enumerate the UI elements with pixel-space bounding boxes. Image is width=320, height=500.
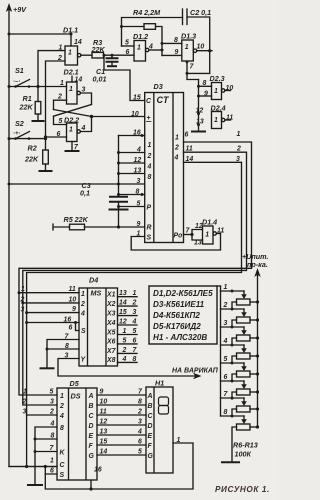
svg-text:2: 2 [137,409,142,416]
svg-text:+: + [147,115,151,122]
svg-text:2: 2 [49,409,54,416]
svg-text:C: C [146,98,152,105]
svg-text:D5: D5 [70,379,80,388]
svg-text:6: 6 [126,49,130,56]
gate D2.1 [67,82,81,104]
svg-text:B: B [89,403,94,410]
wire D3 pin12 [119,162,145,164]
svg-text:7: 7 [190,64,195,71]
svg-text:22K: 22K [19,103,34,112]
svg-text:1: 1 [205,232,209,239]
svg-text:10: 10 [226,85,234,92]
svg-text:R: R [147,225,152,232]
svg-text:13: 13 [194,240,202,247]
svg-text:5: 5 [125,40,129,47]
svg-text:13: 13 [100,429,108,436]
wire clock tap to D3 pin15 [104,55,145,100]
svg-text:5: 5 [59,118,63,125]
svg-text:0,01: 0,01 [93,75,107,84]
svg-text:2: 2 [174,145,179,152]
ground (R2) [39,170,53,172]
parts list box [149,286,217,344]
svg-text:1: 1 [175,135,179,142]
svg-text:S1: S1 [15,66,24,75]
svg-text:DS: DS [71,392,81,401]
svg-text:R2: R2 [28,144,37,153]
svg-text:4: 4 [132,319,137,326]
svg-text:1: 1 [60,80,64,87]
resistor R5 + wire D3 pin9 [53,224,145,230]
net rung 4 [221,338,245,347]
svg-text:H1 - АЛС320В: H1 - АЛС320В [153,333,207,342]
svg-text:1: 1 [50,458,54,465]
capacitor C1 [106,55,119,66]
svg-text:MS: MS [91,289,102,298]
wire D5 pin C from +9V rail [9,465,57,468]
svg-text:6: 6 [185,132,189,139]
svg-text:8: 8 [174,37,178,44]
svg-text:1: 1 [148,142,152,149]
svg-text:D3: D3 [154,82,163,91]
ground (D2 inputs rail) [191,131,206,133]
svg-text:13: 13 [196,119,204,126]
wire D2.2 input 6 [44,135,67,138]
svg-text:D: D [148,423,153,430]
svg-text:9: 9 [72,306,76,313]
net 1 wire (D3 pin6 out) [18,142,252,395]
svg-text:X3: X3 [106,310,116,317]
net rung 2 [221,302,245,311]
svg-text:1: 1 [60,393,64,400]
svg-text:1: 1 [59,45,63,52]
svg-text:2: 2 [122,347,127,354]
net 3 wire (D3 pin14 out) [25,162,241,415]
svg-text:E: E [89,433,94,440]
preset rail (D3 left) [117,136,120,197]
svg-text:3: 3 [50,399,54,406]
svg-text:1: 1 [237,131,241,138]
svg-text:4: 4 [80,311,85,318]
latch cross wires [54,105,92,117]
counter D3 [145,93,184,243]
svg-text:D4: D4 [89,276,98,285]
wire D1.3 pin7 loop [186,61,210,80]
svg-text:3: 3 [138,419,142,426]
wire D4 pin16/6 tie [27,321,79,331]
svg-text:1: 1 [214,88,218,95]
decoder D5 [57,388,97,480]
svg-text:6: 6 [69,325,73,332]
svg-text:X6: X6 [106,339,116,346]
svg-text:3: 3 [21,307,25,314]
svg-text:10: 10 [197,44,205,51]
svg-text:16: 16 [64,317,72,324]
svg-text:8: 8 [138,399,142,406]
D4 output net numbers 1-8 [132,290,138,363]
svg-text:Pо: Pо [174,233,183,240]
svg-text:R4 2,2M: R4 2,2M [133,8,161,17]
svg-text:9: 9 [204,91,208,98]
svg-text:5: 5 [138,449,142,456]
svg-text:G: G [89,453,95,460]
svg-text:D2.4: D2.4 [211,104,226,113]
capacitor C3 [109,197,128,227]
svg-text:1: 1 [185,44,189,51]
svg-text:3: 3 [65,353,69,360]
resistor R4 top loop [120,18,183,56]
wire D2.2 input 5 [54,116,67,124]
svg-text:3: 3 [236,156,240,163]
svg-text:2: 2 [236,146,241,153]
svg-text:S: S [60,472,65,479]
H1 digit 8 glyph [159,397,169,414]
net 2 wire (D3 pin11 out) [21,152,246,405]
svg-text:2: 2 [20,297,25,304]
resistor R3 [81,52,134,58]
svg-text:4: 4 [147,164,152,171]
svg-text:1: 1 [224,284,228,291]
svg-text:·–·: ·–· [13,79,20,85]
D5 output wires to H1 [97,395,146,455]
svg-text:8: 8 [65,343,69,350]
svg-text:11: 11 [100,409,107,416]
svg-text:2: 2 [22,399,27,406]
H1 pin numbers [137,389,143,456]
resistor R1 [35,87,41,121]
svg-text:D1.3: D1.3 [181,32,196,41]
gate D2.2 [67,123,81,142]
svg-text:1: 1 [137,45,141,52]
svg-text:12: 12 [196,108,204,115]
svg-text:5: 5 [133,328,137,335]
svg-text:5: 5 [224,356,228,363]
svg-text:4: 4 [174,155,179,162]
node R3/D1.2 [103,54,106,57]
svg-text:2: 2 [223,302,228,309]
svg-text:4: 4 [148,44,153,51]
gate D1.2 [122,41,163,62]
svg-text:1: 1 [68,50,72,57]
svg-text:1: 1 [81,291,85,298]
svg-text:D1.4: D1.4 [202,218,217,227]
svg-text:K: K [60,450,66,457]
svg-text:8: 8 [133,356,137,363]
D4 output wires X1-X8 [118,297,138,363]
svg-text:S: S [147,235,152,242]
svg-text:D1,D2-К561ЛЕ5: D1,D2-К561ЛЕ5 [153,289,213,298]
svg-text:3: 3 [23,409,27,416]
svg-text:C: C [148,413,154,420]
svg-text:9: 9 [100,389,104,396]
svg-text:F: F [89,443,94,450]
svg-text:4: 4 [81,125,86,132]
svg-text:D1.2: D1.2 [133,32,148,41]
svg-text:1: 1 [21,286,25,293]
gate D2.3 [199,83,231,100]
D5 output pin numbers [100,389,108,456]
svg-text:10: 10 [100,399,108,406]
wire +9V to D1.1 pin14 [9,33,73,47]
svg-text:14: 14 [119,300,127,307]
svg-text:+9V: +9V [13,5,27,14]
svg-text:2: 2 [80,301,85,308]
net rung 5 [221,356,245,365]
svg-text:1: 1 [69,86,73,93]
svg-text:РИСУНОК 1.: РИСУНОК 1. [215,485,270,494]
svg-text:H1: H1 [155,379,164,388]
svg-text:S: S [81,328,86,335]
wire D2.1 input 2 (latch feedback) [54,100,67,109]
svg-text:8: 8 [203,80,207,87]
svg-text:1: 1 [133,290,137,297]
gate D2.4 [212,112,231,129]
resistor R10 [232,363,259,381]
resistor R11 [232,381,259,399]
wire D3 Po to D1.4 inputs [184,230,203,241]
svg-text:C2 0,1: C2 0,1 [190,8,211,17]
svg-text:E: E [148,433,153,440]
wire D3 pin1/S loop to D1.4 output [131,234,220,251]
svg-text:11: 11 [226,115,233,122]
parts list text [153,289,213,342]
wire D5 pin S [45,467,57,475]
svg-text:2: 2 [147,153,152,160]
svg-text:2: 2 [132,300,137,307]
ground (ladder) [221,461,240,463]
svg-text:8: 8 [224,409,228,416]
net 3 tail to D5 C row [25,415,28,468]
svg-text:11: 11 [186,146,193,153]
switch S2 [9,132,47,141]
svg-text:14: 14 [75,77,83,84]
svg-text:16: 16 [94,467,102,474]
svg-text:11: 11 [69,286,76,293]
svg-text:1: 1 [123,328,127,335]
svg-text:12: 12 [100,419,108,426]
svg-text:X7: X7 [106,348,117,355]
svg-text:R5 22K: R5 22K [64,215,89,224]
wire D3 pin3 (from +9V rail) [9,183,145,185]
node dots oscillator [161,42,164,45]
resistor R2 [43,139,49,171]
wire D4 pin3 Y output to varicap [58,359,202,380]
svg-text:15: 15 [100,439,108,446]
supply rail +Uпит [254,268,260,427]
pin 7 stub + ground D2.2 [65,142,80,152]
wires D4 select inputs from nets [19,293,79,313]
net rung 3 [221,320,245,329]
+9V supply rail [6,3,57,467]
svg-text:D2.3: D2.3 [210,74,225,83]
svg-text:7: 7 [186,228,191,235]
svg-text:Y: Y [81,357,87,364]
svg-text:1: 1 [23,389,27,396]
svg-text:4: 4 [137,429,142,436]
svg-text:1: 1 [214,117,218,124]
wire D5 pin16 + bottom return [45,443,193,491]
node: rail junction dots [8,33,11,36]
svg-text:X2: X2 [106,301,116,308]
wire D3 pin13 [119,173,145,175]
svg-text:A: A [88,393,94,400]
svg-text:D5-К176ИД2: D5-К176ИД2 [153,322,201,331]
svg-text:A: A [147,393,153,400]
svg-text:5: 5 [50,389,54,396]
svg-text:10: 10 [69,297,77,304]
wires D4 pins 7,8 to ground [40,340,80,369]
svg-text:11: 11 [217,228,224,235]
resistor R12 [232,398,259,416]
wire D1.1 input 2 [46,61,66,137]
svg-text:пр-ка.: пр-ка. [247,260,268,269]
svg-text:X5: X5 [106,329,116,336]
svg-text:·+·: ·+· [13,131,21,137]
svg-text:13: 13 [119,290,127,297]
svg-text:6: 6 [133,337,137,344]
wire D2.2 output [80,117,91,132]
svg-text:S2: S2 [15,119,24,128]
svg-text:2: 2 [59,403,64,410]
svg-text:22K: 22K [24,155,39,164]
ground (C3) [109,209,129,211]
resistor ladder bus [217,286,221,416]
wire D3 pin8 [119,193,145,196]
svg-text:6: 6 [224,374,228,381]
svg-text:D2.1: D2.1 [64,68,79,77]
svg-text:2: 2 [57,55,62,62]
svg-text:C: C [60,462,66,469]
svg-text:3: 3 [224,320,228,327]
ground (R1) [32,120,45,122]
svg-text:D1.1: D1.1 [63,26,78,35]
svg-text:1: 1 [69,127,73,134]
resistor R6 [232,291,259,309]
wire D3 pin4 [119,152,145,154]
resistor R8 [232,327,259,345]
svg-text:5: 5 [123,337,127,344]
wires D5 pins 4,8,7 to ground [27,427,57,485]
svg-text:F: F [148,443,153,450]
wire D2.1 output [80,93,91,105]
svg-text:R6-R13: R6-R13 [233,441,258,450]
wire D3 pin16 [119,134,145,137]
svg-text:D4-К561КП2: D4-К561КП2 [153,311,200,320]
svg-text:6: 6 [57,131,61,138]
net rung 6 [221,374,245,383]
svg-text:4: 4 [122,356,127,363]
svg-text:12: 12 [195,223,203,230]
D4 output pin numbers [119,290,127,363]
net rung 8 [221,409,245,418]
svg-text:G: G [148,453,154,460]
svg-text:14: 14 [186,156,194,163]
svg-text:CT: CT [157,95,170,105]
resistor R13 [232,416,259,462]
net rung 1 [221,284,245,293]
node latch output [90,115,93,118]
capacitor C2 [183,9,210,73]
svg-text:3: 3 [133,309,137,316]
svg-text:7: 7 [224,391,229,398]
wire D3 pin5 [117,205,145,208]
svg-text:B: B [148,403,153,410]
svg-text:4: 4 [223,338,228,345]
svg-text:D: D [89,423,94,430]
svg-text:C: C [89,413,95,420]
resistor R9 [232,345,259,363]
svg-text:15: 15 [119,309,127,316]
svg-text:4: 4 [59,413,64,420]
svg-text:12: 12 [119,319,127,326]
svg-text:100К: 100К [235,450,252,459]
svg-text:2: 2 [57,94,62,101]
svg-text:1: 1 [177,437,181,444]
resistor R7 [232,309,259,327]
svg-text:X8: X8 [106,357,116,364]
wire D1.1 input 1 [38,51,65,87]
svg-text:10: 10 [131,111,139,118]
wire to D2.3/D2.4 input rail [197,80,212,132]
svg-text:D3-К561ИЕ11: D3-К561ИЕ11 [153,300,205,309]
svg-text:6: 6 [138,439,142,446]
multiplexer D4 [79,288,118,366]
svg-text:22K: 22K [91,45,106,54]
svg-text:8: 8 [60,425,64,432]
svg-text:X1: X1 [106,292,116,299]
svg-text:15: 15 [133,95,141,102]
gate D1.3 [162,40,212,61]
svg-text:14: 14 [74,39,82,46]
svg-text:D2.2: D2.2 [64,116,79,125]
net rung 7 [221,391,245,400]
svg-text:X4: X4 [106,320,116,327]
svg-text:0,1: 0,1 [80,189,90,198]
svg-text:9: 9 [175,49,179,56]
wire latch node to D3 pin10 [92,116,145,118]
svg-text:8: 8 [148,174,152,181]
svg-text:P: P [147,205,152,212]
pin 14 stub D2.1 [72,76,82,83]
indicator H1 [146,387,173,473]
svg-text:7: 7 [74,144,79,151]
op gate D1.1 [65,46,81,65]
gate D1.4 [203,226,221,244]
svg-text:НА ВАРИКАП: НА ВАРИКАП [172,368,219,375]
switch S1 [9,80,67,89]
svg-text:14: 14 [100,449,108,456]
